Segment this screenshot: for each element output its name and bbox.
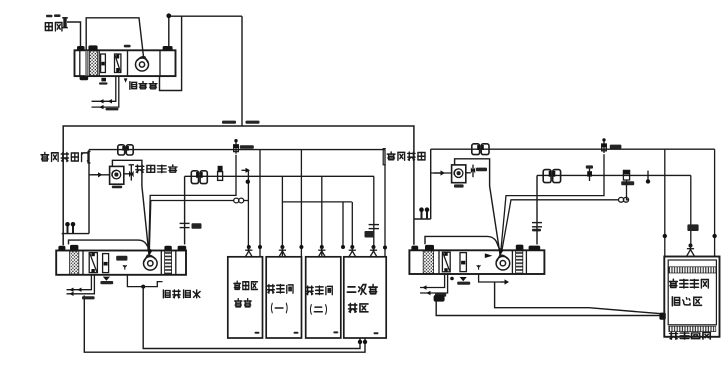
wire valve-2 line drop to room4: [373, 176, 375, 251]
wire connector to AHU-2 inlet: [62, 233, 89, 235]
AHU-3 divider 2: [511, 250, 513, 274]
pipe chilled water return AHU-1: [92, 76, 119, 107]
bracket before 定风量阀: [383, 149, 386, 165]
label (一): [271, 303, 287, 312]
damper D1 on line-A: [234, 139, 239, 154]
fresh air damper bar: [62, 18, 68, 28]
small dot below AHU-3: [450, 277, 454, 281]
pipe AHU-2 water 1: [67, 275, 92, 290]
pipe AHU-2 water 2: [67, 275, 95, 294]
AHU-3 coil: [460, 253, 466, 272]
label beside AHU-3 riser tick: [532, 229, 541, 232]
valve pair V4: [543, 170, 560, 183]
wire damper D1 drop: [149, 155, 236, 250]
bracket after 定风量阀门: [88, 152, 91, 164]
label right of main junction: [246, 121, 260, 124]
label (二): [310, 305, 326, 314]
pipe line-3 lower branch: [282, 201, 351, 203]
air terminal room4 b: [370, 245, 378, 258]
arrow into FS-1: [92, 172, 103, 177]
grille stub left 2: [71, 222, 76, 233]
wire flow-meter right to AHU-3 fan: [502, 200, 619, 251]
AHU-2 top cap 2: [70, 245, 78, 251]
junction core box left drop: [663, 234, 667, 238]
pipe AHU-2 fan section drain: [127, 274, 162, 286]
arrow AHU-2 water 2a: [69, 292, 73, 296]
wire drop to room2 and line-3 tee: [281, 176, 283, 256]
AHU-1 bag filter (striped): [85, 51, 89, 76]
valve pair V2: [191, 171, 207, 184]
label code above fresh-air damper: [46, 15, 53, 17]
grille stub left 1: [65, 222, 70, 233]
arrow into fan B-3: [498, 247, 503, 256]
dash room2 bottom: [294, 332, 299, 334]
label on water return pipe: [106, 108, 119, 111]
pipe bottom return upper: [143, 287, 360, 349]
AHU-3 divider 3: [525, 250, 527, 274]
label 排至室外 (exhaust outdoors): [136, 165, 177, 173]
wire AHU-2 return riser: [184, 176, 186, 244]
label on core box drop: [687, 224, 698, 231]
node sensor junction: [166, 13, 171, 18]
AHU-2 humidifier mark: [123, 265, 127, 270]
wire drop to room border 2-3: [300, 150, 302, 257]
pipe core supply run upper: [495, 282, 660, 314]
tick symbol on AHU-3 return riser: [532, 223, 542, 227]
wire connector to AHU-3 inlet: [414, 218, 431, 220]
label right of damper D1: [240, 145, 254, 149]
label 缓冲间 (2): [306, 286, 332, 295]
arrow on water return 1: [99, 105, 103, 109]
AHU-1 small drain mark: [101, 78, 106, 82]
label B-2 inside AHU-2: [116, 256, 127, 261]
AHU-1 heating coil (slanted): [115, 54, 121, 73]
label right of damper D3: [610, 145, 622, 149]
arrow into FS-2: [434, 170, 445, 175]
label beside return riser tick: [192, 223, 202, 229]
valve pair V1: [118, 145, 133, 155]
label 孔板送风: [669, 279, 708, 288]
wire fresh-air inlet to AHU-1: [67, 22, 81, 50]
AHU-1 top damper cap 2: [88, 45, 97, 50]
wire flow-meter line to AHU-2 fan: [149, 201, 248, 250]
fan B-3: [496, 255, 510, 270]
grille stub right 2: [425, 207, 430, 218]
AHU-2 coil: [103, 254, 109, 273]
pipe main supply header: [63, 126, 414, 245]
label 缓冲间 (1): [267, 284, 293, 293]
arrow AHU-3 water 1a: [422, 285, 426, 289]
pipe chilled water supply AHU-1: [92, 76, 116, 101]
arrow on fan drain run: [501, 279, 509, 284]
label 控区: [349, 303, 368, 312]
pipe line-A left section: [89, 149, 385, 151]
junction bottom return upper: [358, 340, 362, 344]
wire line-A corner to core box right: [714, 149, 716, 256]
fan B-1: [136, 57, 149, 71]
duct recirculation loop AHU-3: [425, 236, 500, 250]
wire line-A corner drop to room4 right: [384, 150, 386, 257]
fan B-2: [144, 255, 158, 270]
pipe tick symbol on AHU-2 return riser: [180, 223, 190, 227]
AHU-3 casing: [409, 250, 544, 274]
tick symbol on room4 drop: [369, 225, 379, 229]
exhaust fan FS-2 box: [452, 165, 466, 183]
wire line-A tee to core box left: [664, 149, 666, 256]
label under drain mark: [99, 82, 108, 84]
junction border drop: [299, 245, 303, 249]
dash room1 bottom: [255, 332, 260, 334]
wire fan outlet loop right: [160, 16, 182, 90]
wire main riser down: [241, 16, 243, 126]
air terminal room1: [245, 245, 253, 258]
label AHU-2 water: [82, 296, 95, 299]
AHU-2 divider 1: [82, 251, 84, 275]
dash room4 bottom: [374, 332, 379, 334]
exhaust fan FS-1 box: [110, 166, 124, 184]
sensor stub on valve-4 line: [647, 171, 649, 182]
label on room4 drop: [365, 231, 375, 238]
label 二次调: [347, 284, 377, 294]
junction dot on sensor stub: [646, 179, 650, 183]
air terminal core box: [687, 244, 695, 257]
label 地板回风: [670, 332, 711, 339]
label 定风量阀 right: [387, 152, 425, 160]
fan FS-1: [112, 170, 121, 179]
fan FS-2: [454, 169, 463, 178]
arrow mark inside AHU-3: [485, 253, 493, 258]
AHU-2 return filter (hlines): [165, 251, 172, 274]
arrow on room-1 stub: [242, 168, 251, 173]
wire drop to room3: [321, 176, 323, 256]
damper D4 on valve-4 line: [587, 166, 592, 181]
wire stub to clean-area ceiling: [247, 170, 249, 251]
label left of main junction: [222, 121, 236, 124]
duct FS-1 suction from AHU-2 discharge: [112, 160, 148, 249]
label FS-2: [454, 184, 464, 187]
pipe bottom return lower: [84, 296, 365, 353]
arrow AHU-2 water 1a: [69, 288, 73, 292]
pipe line-A right section: [431, 148, 715, 150]
exhaust damper after FS-1: [124, 165, 134, 181]
core area inner box: [668, 260, 716, 325]
pipe valve-4 line: [537, 174, 691, 176]
room 洁净区吊顶 box: [228, 257, 263, 338]
AHU-2 top cap 4: [178, 246, 187, 251]
pipe core return run lower: [436, 301, 661, 315]
flow meter oval right: [619, 197, 629, 202]
junction room1 drop: [258, 245, 262, 249]
arrow on water supply 2: [108, 99, 112, 103]
wire drop to room1 from line-A: [259, 150, 261, 257]
wire D3 drop to AHU-3 fan: [501, 154, 604, 250]
AHU-2 casing: [56, 251, 186, 275]
air terminal room3: [318, 245, 326, 258]
damper blob at core box left: [659, 313, 665, 320]
AHU-1 condensate pin: [124, 78, 128, 82]
AHU-1 casing: [75, 50, 176, 76]
wire D5 drop via flow meter: [627, 180, 629, 200]
AHU-3 top cap 3: [516, 245, 524, 251]
label above damper D4: [586, 165, 593, 168]
label 洁净区: [234, 281, 258, 289]
AHU-2 drain triangle: [103, 277, 110, 281]
junction core box right drop: [712, 234, 716, 238]
label under AHU-2 drain: [100, 281, 113, 284]
AHU-3 drain triangle: [460, 277, 467, 281]
AHU-1 hepa filter (dotted): [89, 51, 97, 76]
AHU-1 top damper cap 1: [77, 46, 85, 51]
AHU-3 top cap 2: [425, 245, 434, 251]
pipe valve-2 line: [185, 175, 374, 177]
wire line-3 drop to room4 first terminal: [351, 202, 353, 252]
pipe AHU-3 fan drain run: [479, 274, 502, 282]
wire into FS-1 box: [89, 174, 110, 176]
AHU-2 filter (dotted): [70, 251, 79, 274]
air terminal room2: [279, 245, 287, 258]
damper D3 on right line-A: [602, 138, 607, 153]
AHU-2 divider 3: [175, 251, 177, 275]
AHU-1 internal divider 4: [159, 50, 161, 76]
AHU-2 top cap 1: [58, 246, 65, 251]
label 新风 (fresh air): [45, 23, 62, 31]
AHU-3 return filter (hlines): [516, 251, 523, 273]
pipe AHU-3 water 1: [420, 274, 445, 288]
AHU-3 top cap 1: [411, 246, 418, 251]
label AHU-3 water: [435, 293, 446, 296]
AHU-1 bottom damper cap: [80, 76, 89, 80]
junction border 3-4: [341, 245, 345, 249]
label 接软化水 (soft water): [163, 290, 200, 298]
AHU-3 damper section (slanted): [442, 252, 450, 272]
junction on drain run: [141, 285, 145, 289]
floor return hatch bottom: [669, 326, 716, 331]
AHU-3 divider 1: [438, 250, 440, 274]
AHU-3 top cap 4: [529, 246, 541, 251]
AHU-1 internal divider 3: [127, 50, 129, 76]
label 核心区: [672, 297, 701, 306]
pipe AHU-3 water 2: [420, 274, 448, 293]
valve pair V3: [472, 144, 489, 155]
arrow on water supply 1: [99, 99, 103, 103]
AHU-3 filter (dotted): [423, 251, 433, 273]
wire AHU-3 return riser: [536, 175, 538, 244]
arrow AHU-3 water 2a: [426, 291, 430, 295]
elbow blob on AHU-3 drain: [434, 295, 445, 302]
label 吊顶: [235, 299, 252, 307]
wire valve-4 drop to core box: [690, 175, 692, 244]
label under AHU-3 drain: [457, 282, 470, 285]
room 缓冲间(一) box: [266, 257, 301, 338]
air terminal room4 a: [349, 245, 357, 258]
AHU-1 top damper cap 3: [163, 46, 173, 51]
flow meter oval left: [234, 198, 244, 203]
core area outer box: [664, 257, 719, 337]
label B-1: [124, 45, 131, 48]
label 变频器 (VFD): [130, 82, 157, 90]
arrow into fan B-2: [147, 247, 152, 256]
damper D2 on valve-2 line: [218, 166, 223, 181]
grille stub right 1: [419, 207, 424, 218]
wire into FS-2 box: [431, 172, 452, 174]
room 缓冲间(二) box: [306, 257, 341, 338]
arrow AHU-2 water 1b: [77, 288, 81, 292]
junction room4 right: [383, 246, 387, 250]
AHU-2 damper section (slanted): [89, 253, 97, 273]
wire line-A left riser: [88, 150, 90, 234]
device D5 on valve-4 line: [623, 170, 629, 180]
AHU-1 internal divider 1: [79, 50, 81, 76]
wire line-A right riser: [430, 149, 432, 219]
AHU-3 humidifier mark: [477, 265, 481, 270]
AHU-1 cooling coil: [101, 54, 106, 73]
duct recirculation loop AHU-2: [69, 240, 150, 249]
label below device D5: [621, 181, 634, 185]
label FS-1: [112, 186, 122, 189]
label code above fresh-air damper b: [54, 14, 61, 17]
label right of FS-2 damper: [476, 168, 487, 172]
label 定风量阀门 (CAV valve): [41, 152, 88, 161]
damper after FS-2: [466, 165, 475, 178]
dash room3 bottom: [333, 331, 338, 333]
junction dot below valve-2 line: [246, 180, 250, 184]
perforated supply hatch top: [669, 267, 716, 273]
wire sensor node to main riser: [169, 16, 242, 46]
junction bottom return lower: [363, 340, 367, 344]
room 二次调控区 box: [344, 257, 386, 338]
duct FS-2 to AHU-3 discharge: [455, 159, 500, 250]
wire VFD loop over AHU-1: [86, 18, 143, 58]
AHU-2 divider 2: [160, 251, 162, 275]
AHU-1 internal divider 2: [98, 50, 100, 76]
wire drop border 3-4: [342, 202, 344, 248]
AHU-2 top cap 3: [164, 246, 171, 251]
